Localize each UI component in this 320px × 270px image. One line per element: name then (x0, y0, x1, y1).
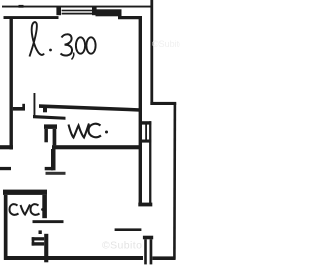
wall CVC north (3, 190, 47, 195)
door hall swing dash (115, 228, 142, 231)
door D5 jamb left leg (144, 239, 147, 264)
window W1 pane lines (62, 10, 93, 12)
wall hall stub foot (45, 167, 54, 170)
door D4 jamb vertical (44, 234, 48, 262)
door D4 jamb prongs and cap (32, 237, 45, 240)
wall bottom (right span) (152, 256, 175, 260)
door D3 jamb left leg (44, 129, 48, 142)
label CVC (10, 204, 44, 215)
door D1 jamb up-stub (22, 104, 25, 108)
wall CVC west (4, 195, 8, 260)
svg-text:©Subito: ©Subito (102, 240, 142, 252)
wall right outer (150, 0, 153, 105)
wall hall north (52, 145, 141, 149)
wall WC north (39, 104, 140, 111)
wall top outer line (2, 6, 153, 8)
door D3 jamb right leg (53, 129, 57, 146)
label WC (69, 124, 109, 138)
window W1 right jamb (92, 7, 97, 15)
wall step to bump-out (150, 102, 176, 105)
svg-text:©Subito: ©Subito (152, 39, 180, 49)
entry door dash left (0, 167, 11, 170)
filled wall segment top right (96, 9, 122, 16)
ink dot near door jamb (39, 230, 42, 234)
wall WC north end tick (43, 108, 47, 112)
wall end cap (corridor) (138, 203, 152, 207)
wall bottom (left span) (5, 256, 144, 260)
wall CVC east stub (42, 195, 47, 218)
door D2 jamb top rung (141, 121, 151, 124)
entry door swing dash (46, 172, 66, 175)
door CVC swing dash (33, 220, 64, 223)
door D5 jamb right leg (150, 239, 153, 264)
door D1 left jamb tick (13, 107, 25, 111)
wall bump-out outer right (173, 103, 176, 260)
wall top inner line (right span) (118, 16, 139, 19)
wall hall stub down (51, 149, 56, 170)
label h. 3,00 (30, 22, 96, 59)
wall left foot at hall (0, 145, 13, 149)
window W1 left jamb (56, 7, 61, 15)
wall left outer (10, 17, 13, 150)
wall right inner (room divider) (139, 16, 142, 204)
door D3 jamb top bar (44, 124, 57, 128)
wall top inner line (left span) (4, 16, 59, 19)
wall corridor inner line (149, 121, 151, 204)
door D2 jamb bottom rung (140, 140, 152, 143)
wall WC west thin line (34, 93, 36, 117)
door D2 leaf line (145, 123, 147, 141)
door D1 lintel dash (33, 115, 66, 120)
ink blob on top wall (19, 5, 24, 8)
door D5 jamb cap (143, 236, 153, 240)
